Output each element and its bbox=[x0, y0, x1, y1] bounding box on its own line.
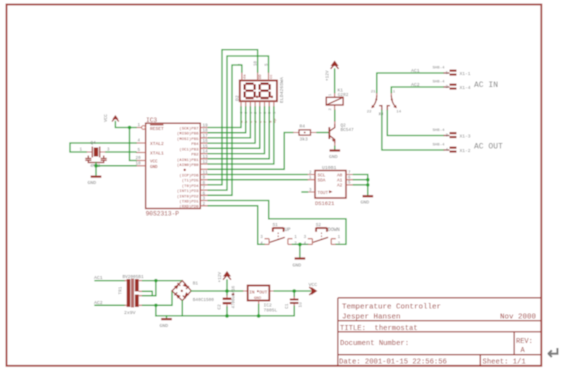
svg-text:C1: C1 bbox=[285, 303, 290, 309]
ground at DS1621 bbox=[361, 196, 374, 205]
wire VCC net to IC3 VCC pin bbox=[130, 128, 137, 161]
connector pad X1-3 bbox=[433, 129, 471, 140]
junction IC2 GND at rail bbox=[257, 314, 261, 318]
svg-text:AC2: AC2 bbox=[411, 82, 420, 88]
svg-text:DD: DD bbox=[259, 74, 263, 79]
svg-text:(T1)PD5: (T1)PD5 bbox=[182, 179, 199, 184]
svg-text:RESET: RESET bbox=[150, 126, 164, 132]
wire IC2 GND to rail bbox=[258, 305, 260, 316]
bridge rectifier B1 B40C1500 bbox=[172, 281, 214, 303]
junction VCC net bbox=[128, 126, 131, 129]
IC3 right pin stubs bbox=[200, 128, 208, 206]
VCC supply symbol at IC3 bbox=[104, 114, 119, 122]
svg-text:(MISO)PB6: (MISO)PB6 bbox=[177, 132, 199, 137]
svg-text:3: 3 bbox=[203, 197, 206, 202]
wire crystal centre to ground row bbox=[95, 163, 97, 166]
svg-text:GND: GND bbox=[88, 180, 97, 186]
svg-text:15: 15 bbox=[203, 144, 209, 149]
push button S1 UP bbox=[260, 223, 297, 247]
svg-text:+12V: +12V bbox=[218, 272, 223, 283]
transistor Q2 BC547 bbox=[329, 121, 354, 147]
digit 8 right bbox=[260, 84, 270, 98]
voltage regulator IC2 7805L bbox=[243, 286, 278, 314]
wire button S1 to junction bbox=[293, 243, 308, 245]
svg-text:GND: GND bbox=[293, 263, 302, 269]
junction A2 bbox=[366, 183, 369, 186]
svg-text:X1-3: X1-3 bbox=[460, 134, 471, 140]
svg-text:DOWN: DOWN bbox=[328, 227, 340, 233]
wire PD1 to display top pin 2 bbox=[208, 65, 242, 195]
+12V supply symbol at bridge bbox=[218, 271, 231, 283]
connector pad X1-1 bbox=[433, 67, 471, 78]
relay contact 1 bbox=[367, 91, 384, 117]
svg-text:TITLE: thermostat: TITLE: thermostat bbox=[340, 325, 418, 333]
svg-text:S2: S2 bbox=[316, 223, 322, 228]
svg-text:1: 1 bbox=[138, 123, 141, 128]
svg-text:AC1: AC1 bbox=[411, 68, 420, 74]
svg-text:GND: GND bbox=[329, 154, 338, 160]
left side: vcc, crystal bbox=[70, 114, 136, 186]
svg-text:BC547: BC547 bbox=[341, 128, 355, 133]
+12V supply symbol at relay bbox=[326, 61, 339, 82]
svg-text:(MOSI)PB5: (MOSI)PB5 bbox=[177, 137, 199, 142]
svg-text:G2R2: G2R2 bbox=[338, 93, 349, 98]
wire Q2 collector to relay coil bbox=[334, 110, 336, 121]
svg-text:R4: R4 bbox=[300, 123, 306, 129]
svg-text:22: 22 bbox=[367, 111, 372, 115]
wire IC2 OUT to VCC bbox=[274, 290, 310, 292]
temperature sensor U1 DS1621 bbox=[308, 165, 354, 207]
IC3 right pin names bbox=[177, 127, 199, 210]
wire IC3 TXD/PD1 to button S2 bbox=[208, 201, 346, 245]
wire A1 to ground rail bbox=[354, 179, 368, 181]
svg-text:TOUT: TOUT bbox=[318, 191, 329, 196]
wire crystal pin3 to XTAL1 bbox=[106, 151, 137, 153]
power supply bbox=[94, 271, 317, 329]
svg-text:(T0)PD4: (T0)PD4 bbox=[182, 184, 199, 189]
svg-text:GND: GND bbox=[160, 323, 169, 329]
svg-text:(SCK)PB7: (SCK)PB7 bbox=[179, 127, 199, 132]
svg-text:(AIN0)PB0: (AIN0)PB0 bbox=[177, 163, 199, 168]
svg-text:+12V: +12V bbox=[326, 70, 331, 81]
svg-text:(INT1)PD3: (INT1)PD3 bbox=[177, 189, 199, 194]
display body bbox=[240, 81, 277, 102]
wire contact1 common to AC1 row bbox=[377, 73, 444, 93]
svg-text:DS1621: DS1621 bbox=[315, 201, 334, 207]
junction at C1 bbox=[292, 289, 296, 293]
svg-text:5: 5 bbox=[138, 148, 141, 153]
VCC arrow symbol at regulator output bbox=[309, 282, 318, 295]
display top pin stubs bbox=[242, 72, 269, 81]
wire PD2 to display top pin 5 bbox=[208, 56, 268, 190]
svg-text:SHB-4: SHB-4 bbox=[433, 81, 446, 85]
svg-text:A2: A2 bbox=[337, 184, 343, 189]
wire A0 to ground rail bbox=[354, 175, 368, 196]
wire C2 to ground rail bbox=[226, 307, 228, 316]
svg-text:X1-4: X1-4 bbox=[460, 85, 471, 91]
svg-text:GND: GND bbox=[150, 166, 158, 170]
wire +12V to junction bbox=[226, 280, 228, 291]
IC3 right pin numbers bbox=[203, 124, 209, 207]
svg-text:S1: S1 bbox=[273, 223, 279, 228]
display bottom pin stubs bbox=[241, 101, 274, 107]
svg-text:VCC: VCC bbox=[150, 161, 158, 165]
wire contact2 common to AC2 row bbox=[391, 87, 443, 93]
wire PB7 to display segment pin a bbox=[208, 107, 241, 128]
wire crystal pin1 to XTAL2 bbox=[70, 143, 136, 152]
wire PB6 to display segment pin b bbox=[208, 107, 245, 133]
svg-text:VCC: VCC bbox=[104, 114, 109, 122]
svg-text:GND: GND bbox=[254, 297, 262, 301]
resistor R4 bbox=[293, 123, 317, 142]
svg-text:da: da bbox=[243, 74, 248, 79]
svg-text:VCC: VCC bbox=[309, 282, 318, 288]
connector pad X1-2 bbox=[433, 144, 471, 155]
svg-text:D2: D2 bbox=[235, 95, 241, 101]
svg-text:XTAL1: XTAL1 bbox=[150, 151, 164, 157]
wire +12V to relay coil bbox=[334, 69, 336, 93]
RESET pin inversion bubble bbox=[142, 126, 146, 130]
ground rail at bottom bbox=[156, 306, 294, 316]
wire AC2 to transformer primary bbox=[95, 304, 125, 306]
wire IC3 RXD/PD0 to button S1 bbox=[208, 206, 264, 245]
svg-text:ELD426SWA: ELD426SWA bbox=[279, 77, 285, 103]
svg-text:1u: 1u bbox=[299, 302, 304, 308]
svg-text:SHB-4: SHB-4 bbox=[433, 67, 446, 71]
wire bridge minus to ground rail bbox=[181, 301, 183, 316]
junction A1 bbox=[366, 178, 369, 181]
ground at power supply bbox=[160, 319, 172, 329]
svg-text:(TXD)PD1: (TXD)PD1 bbox=[179, 200, 199, 205]
wire contact1 NO to X1 row4 bbox=[382, 111, 444, 151]
display bottom pin numbers (rotated) bbox=[241, 111, 278, 114]
wire junction to ground bbox=[299, 244, 301, 258]
wire PB5 to display segment pin c bbox=[208, 107, 250, 138]
svg-text:2: 2 bbox=[203, 202, 206, 207]
svg-text:SHB-4: SHB-4 bbox=[433, 129, 446, 133]
svg-text:SDA: SDA bbox=[318, 179, 326, 184]
svg-text:REV:: REV: bbox=[516, 338, 533, 346]
IC3 body bbox=[146, 123, 201, 208]
svg-text:12: 12 bbox=[378, 113, 383, 117]
svg-text:(RXD)PD0: (RXD)PD0 bbox=[179, 205, 199, 210]
svg-text:UP: UP bbox=[285, 227, 291, 233]
junction secondary bottom bbox=[154, 304, 157, 307]
svg-text:Nov 2000: Nov 2000 bbox=[500, 314, 537, 322]
wire ground rail to GND symbol bbox=[166, 316, 168, 319]
svg-text:Sheet: 1/1: Sheet: 1/1 bbox=[483, 358, 526, 366]
svg-text:4: 4 bbox=[138, 139, 141, 144]
svg-text:B1: B1 bbox=[193, 282, 199, 287]
AC connectors bbox=[433, 67, 504, 155]
svg-text:90S2313-P: 90S2313-P bbox=[146, 211, 180, 218]
IC3 left pin stubs bbox=[136, 128, 146, 166]
digit 8 left bbox=[245, 84, 255, 98]
wire PB3 to display segment pin e bbox=[208, 107, 259, 148]
wire IC3 PD5 to DS1621 SCL bbox=[208, 174, 307, 176]
svg-text:AC IN: AC IN bbox=[474, 81, 498, 90]
display bottom pin names (rotated) bbox=[241, 118, 278, 123]
red marker dot inside IC3 bbox=[184, 169, 186, 171]
title block bbox=[338, 298, 541, 366]
svg-text:21: 21 bbox=[371, 91, 376, 95]
svg-text:C2: C2 bbox=[217, 304, 222, 310]
7-segment display D2 ELD426SWA bbox=[235, 60, 286, 123]
wire PB1 to display segment pin g bbox=[208, 107, 269, 159]
wire A2 to ground rail bbox=[354, 184, 368, 186]
wire PB4 to display segment pin d bbox=[208, 107, 255, 143]
ground at crystal bbox=[88, 177, 102, 186]
junction on secondary top wire bbox=[154, 279, 157, 282]
decimal point right bbox=[271, 96, 273, 98]
svg-text:SHB-4: SHB-4 bbox=[433, 144, 446, 148]
relay contact 2 bbox=[378, 91, 401, 117]
connector pad X1-4 bbox=[433, 81, 471, 92]
svg-text:OUT: OUT bbox=[259, 290, 267, 295]
wire IC3 pin to resistor R4 bbox=[208, 133, 293, 170]
svg-text:12: 12 bbox=[203, 160, 209, 165]
svg-text:TR1: TR1 bbox=[119, 286, 124, 294]
svg-text:(OC1)PB3: (OC1)PB3 bbox=[179, 147, 199, 152]
wire secondary centre tap loop bbox=[143, 281, 156, 296]
push button S2 DOWN bbox=[304, 223, 341, 247]
relay and transistor bbox=[208, 61, 443, 170]
svg-text:BV2005B1: BV2005B1 bbox=[123, 275, 144, 280]
wire R4 to Q2 base bbox=[317, 132, 328, 134]
wire PB0 to display segment pin dp bbox=[208, 107, 274, 164]
svg-text:(ICP)PD6: (ICP)PD6 bbox=[179, 173, 199, 178]
DS1621 bbox=[208, 165, 373, 207]
svg-text:U10B1: U10B1 bbox=[322, 165, 337, 171]
svg-text:Jesper Hansen: Jesper Hansen bbox=[342, 314, 401, 322]
svg-text:Document Number:: Document Number: bbox=[340, 340, 409, 348]
wire bridge plus to IC2 IN bbox=[191, 290, 243, 292]
capacitor C1 1u bbox=[285, 291, 304, 309]
svg-text:cc: cc bbox=[270, 74, 274, 79]
wire PB2 to display segment pin f bbox=[208, 107, 264, 154]
wire TOUT stub bbox=[302, 191, 308, 193]
microcontroller IC3 90S2313-P bbox=[136, 117, 209, 218]
svg-text:IN: IN bbox=[249, 290, 255, 295]
ground below Q2 bbox=[329, 151, 340, 161]
svg-text:XTAL2: XTAL2 bbox=[150, 141, 164, 147]
svg-text:2x9V: 2x9V bbox=[124, 310, 136, 316]
capacitor C2 4700uF/16 bbox=[217, 285, 236, 309]
decimal point left bbox=[256, 96, 258, 98]
svg-text:PB2: PB2 bbox=[191, 154, 199, 158]
svg-text:d: d bbox=[254, 121, 259, 123]
wire PD3 to display top pin 10 bbox=[208, 50, 257, 185]
IC3 left pin numbers bbox=[136, 123, 142, 167]
junction C2 at rail bbox=[225, 314, 229, 318]
svg-text:IC3: IC3 bbox=[146, 117, 157, 124]
svg-text:7805L: 7805L bbox=[264, 307, 278, 313]
svg-text:B40C1500: B40C1500 bbox=[193, 298, 214, 303]
ground below buttons bbox=[293, 259, 306, 269]
svg-text:14: 14 bbox=[396, 111, 401, 115]
svg-text:dp: dp bbox=[272, 118, 277, 123]
buttons bbox=[208, 201, 346, 269]
svg-text:(INT0)PD2: (INT0)PD2 bbox=[177, 194, 199, 199]
relay coil K1 G2R2 bbox=[326, 88, 349, 111]
svg-text:(AIN1)PB1: (AIN1)PB1 bbox=[177, 158, 199, 163]
wire Q2 emitter to ground bbox=[334, 146, 336, 150]
junction crystal ground bbox=[94, 164, 98, 168]
svg-text:Q4: Q4 bbox=[91, 141, 97, 146]
wire junction to ground rail bbox=[155, 305, 157, 316]
ceramic resonator Q4 bbox=[79, 141, 110, 169]
svg-text:GND: GND bbox=[361, 200, 370, 206]
svg-text:PB4: PB4 bbox=[191, 143, 199, 147]
svg-text:4700uF/16: 4700uF/16 bbox=[232, 285, 237, 308]
svg-text:Temperature Controller: Temperature Controller bbox=[342, 304, 441, 312]
transformer TR1 BV2005B1 2x9V bbox=[119, 275, 144, 316]
wire transformer secondary top to bridge bbox=[143, 280, 183, 282]
wire VCC to IC3 RESET bbox=[115, 122, 136, 128]
wire IC3 PD4 to DS1621 SDA bbox=[208, 179, 307, 181]
junction at buttons ground bbox=[298, 243, 302, 247]
svg-text:X1-1: X1-1 bbox=[460, 71, 471, 77]
wires IC3 to display bbox=[208, 50, 274, 196]
svg-text:Date: 2001-01-15 22:56:56: Date: 2001-01-15 22:56:56 bbox=[339, 358, 447, 366]
svg-text:AC OUT: AC OUT bbox=[474, 143, 503, 152]
junction at +12V / C2 bbox=[225, 289, 229, 293]
svg-text:3k3: 3k3 bbox=[300, 137, 309, 143]
svg-text:X1-2: X1-2 bbox=[460, 148, 471, 154]
wire transformer secondary bottom to bridge bbox=[143, 291, 172, 305]
svg-text:↵: ↵ bbox=[547, 344, 561, 363]
wire IC3 GND pin to ground bbox=[96, 166, 136, 176]
wire AC1 to transformer primary bbox=[95, 280, 125, 282]
wire contact2 NO to X1 row3 bbox=[387, 111, 443, 136]
